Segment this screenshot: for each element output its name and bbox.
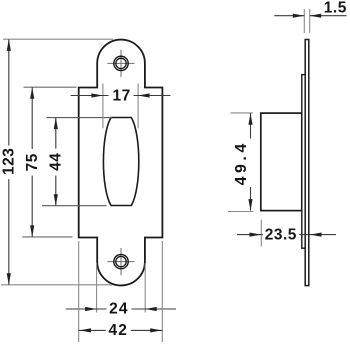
dim 23.5: label	[263, 227, 300, 242]
dim 17: label	[109, 88, 134, 103]
dim 1.5: arrows	[293, 14, 305, 18]
dim 123: label	[2, 146, 16, 180]
svg-text:75: 75	[24, 153, 41, 171]
dim 24: label	[107, 302, 132, 317]
svg-text:42: 42	[108, 322, 128, 339]
dim 24: extension lines	[97, 263, 146, 313]
screw hole bottom: crosshair	[108, 248, 135, 275]
screw hole top: circles	[114, 56, 128, 70]
side view: face plate (1.5 thick)	[305, 40, 309, 286]
dim 49.4: label	[234, 139, 253, 188]
dim 44: extension lines	[42, 118, 112, 206]
dim 49.4: dimension line	[250, 113, 252, 210]
screw hole top: crosshair	[108, 50, 135, 77]
svg-text:123: 123	[1, 148, 18, 175]
svg-text:23.5: 23.5	[265, 226, 297, 243]
dim 75: label	[25, 149, 39, 176]
dim 24: dimension line	[66, 308, 176, 310]
side view: lock box	[261, 113, 302, 211]
screw hole bottom: circles	[114, 254, 128, 268]
latch opening (barrel-shaped cutout)	[103, 118, 138, 206]
dim 17: extension lines	[103, 84, 138, 129]
dim 49.4: extension lines	[228, 113, 254, 212]
dim 75: extension lines	[22, 87, 76, 237]
dim 44: label	[49, 149, 63, 176]
dim 42: label	[106, 323, 131, 338]
svg-text:17: 17	[112, 87, 130, 104]
dim 44: arrows	[54, 118, 58, 130]
dim 23.5: extension line	[260, 220, 262, 247]
dim 49.4: arrows	[248, 113, 252, 125]
dim 24: arrows	[85, 307, 97, 311]
dim 42: dimension line	[79, 329, 163, 331]
dim 1.5: extension lines	[304, 9, 309, 33]
dim 1.5: dimension line	[274, 15, 346, 17]
dim 42: extension lines	[79, 241, 163, 342]
dim 23.5: dimension line	[237, 234, 336, 236]
dim 17: arrows	[91, 93, 103, 97]
dim 123: arrows	[7, 39, 11, 51]
dim 75: arrows	[30, 87, 34, 99]
svg-text:24: 24	[109, 301, 129, 318]
svg-text:49.4: 49.4	[233, 140, 250, 185]
dim 123: dimension line	[8, 39, 10, 284]
dim 17: dimension line	[71, 95, 171, 97]
dim 23.5: arrows	[250, 233, 262, 237]
svg-text:44: 44	[48, 153, 65, 171]
svg-text:1.5: 1.5	[324, 0, 347, 16]
dim 42: arrows	[80, 328, 92, 332]
front view: strike plate outline	[79, 40, 163, 286]
side view: rear lip	[302, 75, 305, 249]
dim 123: extension lines	[1, 39, 113, 285]
dim 44: dimension line	[55, 118, 57, 206]
dim 75: dimension line	[31, 87, 33, 237]
